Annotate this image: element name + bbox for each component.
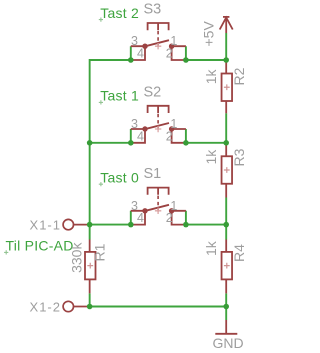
svg-text:X1-1: X1-1 <box>30 218 61 233</box>
svg-text:R2: R2 <box>231 67 247 85</box>
svg-text:S2: S2 <box>144 84 162 100</box>
svg-text:+5V: +5V <box>201 21 217 47</box>
svg-text:R4: R4 <box>231 244 247 262</box>
svg-text:Tast 2: Tast 2 <box>100 5 139 21</box>
svg-text:1k: 1k <box>203 240 219 256</box>
svg-text:1k: 1k <box>203 69 219 85</box>
svg-text:GND: GND <box>212 335 243 351</box>
svg-text:R1: R1 <box>91 243 107 261</box>
svg-text:1k: 1k <box>203 149 219 165</box>
svg-text:330k: 330k <box>69 242 85 273</box>
svg-text:S1: S1 <box>144 166 162 182</box>
svg-text:S3: S3 <box>144 2 162 18</box>
svg-text:X1-2: X1-2 <box>30 299 61 314</box>
svg-text:Tast 1: Tast 1 <box>100 88 139 104</box>
svg-text:Tast 0: Tast 0 <box>100 170 139 186</box>
svg-text:R3: R3 <box>231 148 247 166</box>
svg-text:Til PIC-AD: Til PIC-AD <box>6 238 74 254</box>
